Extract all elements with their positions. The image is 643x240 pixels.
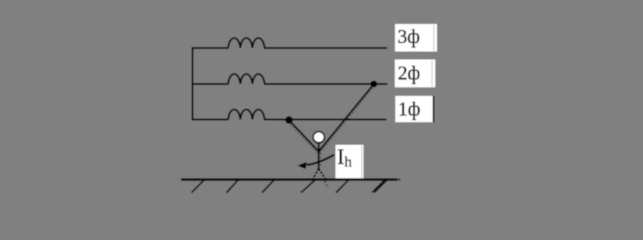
wire: phase 2 line (192, 83, 388, 85)
wire: phase 1 line (192, 119, 387, 121)
ground hatch mark 1 (192, 180, 205, 193)
node: contact junction on phase 2 (370, 81, 377, 88)
svg-text:3ф: 3ф (398, 27, 420, 48)
ground plane line (181, 178, 400, 180)
inductor: phase 2 winding (228, 74, 264, 84)
label box 3φ (395, 24, 437, 52)
person: left leg (312, 169, 319, 181)
ground hatch mark 6 (double stroke) (372, 180, 387, 193)
node: contact junction on phase 1 (285, 116, 292, 123)
ground hatch mark 5 (336, 180, 349, 193)
svg-text:2ф: 2ф (398, 64, 420, 85)
ground hatch mark 3 (262, 180, 274, 193)
label box 2φ (395, 60, 436, 88)
person: left arm from shoulder to phase 1 node (288, 120, 319, 152)
inductor: phase 1 winding (228, 109, 264, 119)
person: torso (319, 143, 321, 169)
person: right arm from shoulder to phase 2 node (319, 84, 375, 152)
ground hatch mark 4 (301, 180, 315, 193)
label box 1φ (395, 96, 434, 122)
person: head (313, 132, 324, 143)
label Ih (336, 144, 364, 178)
current arrow Ih (curved, pointing left) (298, 155, 335, 169)
inductor: phase 3 winding (228, 38, 264, 48)
svg-text:1ф: 1ф (398, 100, 420, 121)
person: right leg (319, 169, 328, 188)
wire: phase 3 line (192, 47, 388, 49)
ground hatch mark 2 (227, 180, 239, 193)
wire: left vertical bus (192, 47, 194, 121)
